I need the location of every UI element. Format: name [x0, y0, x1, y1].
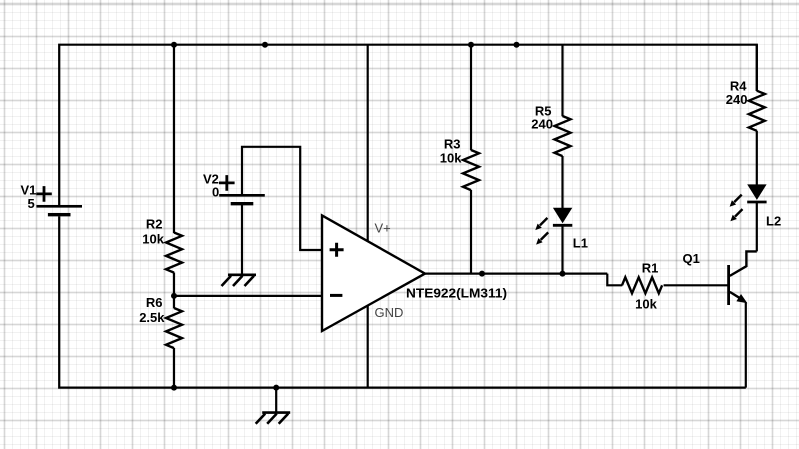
transistor Q1 collector	[730, 251, 757, 276]
battery V2	[219, 175, 265, 204]
op-amp plus input marker	[330, 243, 344, 257]
resistor R5	[555, 116, 571, 156]
wire op-amp V+ supply	[367, 45, 369, 245]
node top rail stray dot	[262, 42, 268, 48]
wire L1 to output wire	[561, 226, 563, 274]
battery V1	[36, 186, 82, 215]
transistor Q1 emitter arrowhead	[736, 294, 747, 303]
op-amp minus input marker	[330, 294, 342, 297]
wire R5 to LED L1	[561, 156, 563, 208]
wire op-amp GND pin to bottom rail	[367, 303, 369, 388]
wire R6 bottom to rail	[173, 348, 175, 388]
op-amp U1 NTE922(LM311)	[322, 215, 425, 331]
transistor Q1 emitter	[730, 292, 740, 298]
resistor R2	[166, 233, 182, 273]
svg-text:NTE922(LM311): NTE922(LM311)	[406, 285, 507, 300]
node top rail stray dot 2	[514, 42, 520, 48]
svg-text:10k: 10k	[635, 296, 657, 311]
svg-text:R1: R1	[642, 260, 659, 275]
wire L2 to Q1 collector	[756, 203, 758, 252]
wire op-amp output	[425, 273, 607, 275]
svg-text:L2: L2	[766, 213, 781, 228]
ground bottom	[256, 413, 291, 424]
resistor R6	[166, 308, 182, 348]
wire R5 branch from top rail	[561, 45, 563, 117]
ground below V2	[222, 275, 257, 286]
node bottom rail ground	[273, 385, 279, 391]
resistor R1	[622, 277, 662, 293]
node L1 output junction	[560, 271, 566, 277]
node bottom rail R6	[171, 385, 177, 391]
node top rail R2	[171, 42, 177, 48]
wire emitter to bottom rail	[745, 302, 747, 387]
transistor Q1 base bar	[727, 265, 730, 305]
svg-text:V+: V+	[375, 221, 391, 236]
node top rail R3	[468, 42, 474, 48]
junction node R2/R6	[171, 293, 177, 299]
LED L1	[535, 208, 572, 245]
svg-text:0: 0	[212, 184, 219, 199]
wire R2 to R6	[173, 273, 175, 309]
svg-text:GND: GND	[375, 305, 404, 320]
wire R3 branch from top rail	[470, 45, 472, 151]
resistor R3	[463, 150, 479, 190]
svg-text:Q1: Q1	[683, 251, 700, 266]
wire V2 minus down	[241, 204, 243, 274]
wire inverting input from R2/R6 node	[174, 295, 323, 297]
wire R2 branch from top rail	[173, 45, 175, 233]
wire R4 branch top	[756, 45, 758, 91]
LED L2	[730, 184, 767, 221]
svg-text:R2: R2	[146, 217, 163, 232]
svg-text:240: 240	[531, 117, 553, 132]
svg-text:5: 5	[28, 196, 35, 211]
wire R1 to Q1 base	[664, 284, 728, 286]
wire top rail with left and right corners	[59, 45, 757, 206]
svg-text:10k: 10k	[440, 151, 462, 166]
wire left rail bottom and bottom rail	[59, 216, 746, 387]
svg-text:240: 240	[726, 92, 748, 107]
node output stray dot	[479, 271, 485, 277]
wire V2 plus to op-amp non-inverting input	[242, 147, 323, 250]
svg-text:2.5k: 2.5k	[139, 310, 165, 325]
wire output jog down to R1	[607, 274, 622, 286]
resistor R4	[749, 91, 765, 131]
svg-text:L1: L1	[573, 235, 588, 250]
svg-text:10k: 10k	[142, 232, 164, 247]
wire ground stub on bottom rail	[275, 388, 277, 412]
svg-text:R3: R3	[444, 136, 461, 151]
wire R4 to LED L2	[756, 131, 758, 185]
wire R3 bottom to output node	[470, 190, 472, 274]
svg-text:R6: R6	[146, 295, 163, 310]
